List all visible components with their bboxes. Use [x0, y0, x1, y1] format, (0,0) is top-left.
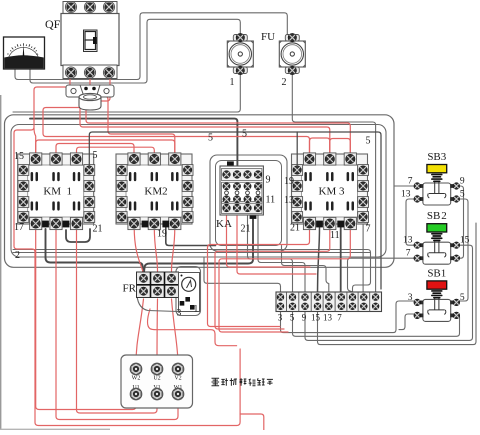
svg-text:5: 5	[242, 129, 247, 140]
svg-text:7: 7	[408, 177, 413, 187]
svg-text:15: 15	[14, 151, 24, 162]
svg-text:W2: W2	[132, 376, 141, 382]
svg-text:5: 5	[366, 136, 371, 147]
svg-text:KM 1: KM 1	[43, 186, 72, 198]
svg-text:2: 2	[282, 77, 287, 88]
svg-text:13: 13	[403, 236, 413, 246]
svg-text:5: 5	[290, 313, 295, 323]
svg-text:U2: U2	[153, 376, 160, 382]
svg-text:5: 5	[460, 293, 465, 303]
svg-text:21: 21	[93, 224, 103, 235]
svg-text:21: 21	[241, 224, 251, 235]
svg-text:7: 7	[406, 249, 411, 259]
svg-text:5: 5	[93, 150, 98, 161]
svg-text:9: 9	[302, 313, 307, 323]
svg-text:15: 15	[460, 236, 470, 246]
svg-text:2: 2	[15, 250, 20, 261]
svg-text:5: 5	[208, 133, 213, 144]
svg-text:7: 7	[366, 224, 371, 235]
svg-text:FR: FR	[123, 283, 137, 295]
svg-text:SB3: SB3	[427, 151, 446, 163]
svg-text:9: 9	[460, 177, 465, 187]
svg-text:3: 3	[177, 309, 182, 319]
svg-text:13: 13	[401, 190, 411, 200]
svg-text:15: 15	[311, 313, 321, 323]
svg-text:KM 3: KM 3	[319, 186, 345, 198]
svg-text:KM2: KM2	[144, 186, 167, 198]
svg-text:21: 21	[290, 223, 300, 234]
svg-text:7: 7	[337, 313, 342, 323]
svg-text:1: 1	[230, 77, 235, 88]
svg-text:V2: V2	[174, 376, 181, 382]
svg-text:11: 11	[330, 230, 340, 241]
svg-text:17: 17	[14, 222, 24, 233]
svg-text:13: 13	[284, 195, 294, 206]
svg-text:SB 2: SB 2	[427, 210, 447, 222]
svg-text:13: 13	[323, 313, 333, 323]
svg-text:3: 3	[408, 293, 413, 303]
svg-text:11: 11	[266, 195, 276, 206]
svg-text:19: 19	[157, 229, 167, 240]
svg-text:5: 5	[460, 190, 465, 200]
svg-text:FU: FU	[261, 31, 275, 43]
svg-text:SB1: SB1	[427, 267, 446, 279]
svg-text:0: 0	[7, 52, 9, 56]
svg-text:KA: KA	[216, 218, 232, 230]
svg-text:9: 9	[266, 175, 271, 186]
svg-text:19: 19	[284, 176, 294, 187]
svg-text:1: 1	[194, 305, 199, 315]
svg-text:3: 3	[278, 313, 283, 323]
svg-text:QF: QF	[45, 17, 61, 31]
